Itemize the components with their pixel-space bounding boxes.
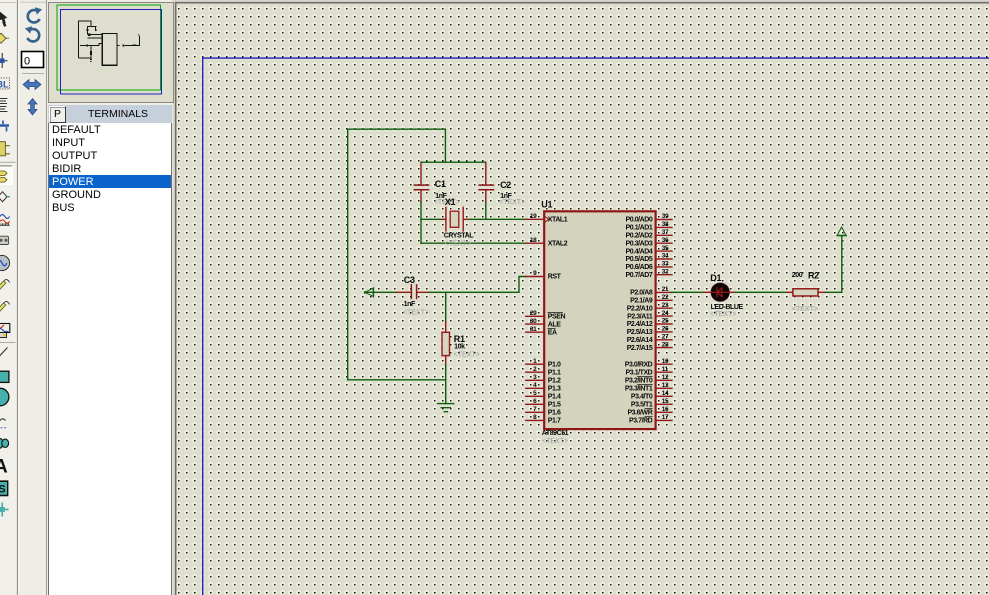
U1 pin 11 P3.1/TXD bbox=[656, 371, 672, 373]
icon: mirror horizontal bbox=[23, 80, 41, 90]
wire: pin21 to LED bbox=[671, 291, 704, 293]
icon: voltage probe bbox=[0, 281, 6, 291]
icon: bus bbox=[0, 121, 9, 132]
svg-text:A: A bbox=[0, 457, 8, 478]
svg-text:34: 34 bbox=[662, 253, 669, 260]
svg-text:15: 15 bbox=[662, 398, 669, 405]
wire: junction down to R1 bbox=[445, 292, 447, 322]
svg-text:P3.6/WR: P3.6/WR bbox=[627, 410, 652, 417]
wire: left ground loop (vertical + top run) bbox=[348, 129, 446, 380]
U1 pin 23 P2.2/A10 bbox=[656, 307, 672, 309]
U1 pin 4 P1.3 bbox=[526, 387, 544, 389]
svg-text:R2: R2 bbox=[808, 270, 819, 280]
svg-text:12: 12 bbox=[662, 374, 669, 381]
wire: C1-C2 top rail bbox=[421, 161, 486, 163]
svg-text:P2.5/A13: P2.5/A13 bbox=[627, 329, 653, 336]
icon: graph bbox=[0, 215, 10, 226]
svg-text:37: 37 bbox=[662, 229, 669, 236]
svg-text:RST: RST bbox=[548, 274, 562, 281]
svg-text:32: 32 bbox=[662, 268, 669, 275]
svg-text:39: 39 bbox=[662, 213, 669, 220]
icon: 2d circle bbox=[0, 388, 9, 405]
svg-text:10k: 10k bbox=[454, 343, 465, 350]
U1 pin 5 P1.4 bbox=[526, 395, 544, 397]
mini left loop bbox=[79, 21, 91, 58]
icon: rotate clockwise bbox=[28, 10, 40, 22]
svg-text:P3.4/T0: P3.4/T0 bbox=[631, 394, 653, 401]
svg-text:18: 18 bbox=[530, 237, 537, 244]
divider bbox=[0, 161, 16, 163]
icon: current probe bbox=[0, 303, 6, 313]
svg-text:35: 35 bbox=[662, 245, 669, 252]
svg-text:PSEN: PSEN bbox=[548, 314, 566, 321]
wire: XTAL2 rail to pin18 bbox=[421, 242, 526, 244]
svg-text:P0.1/AD1: P0.1/AD1 bbox=[626, 225, 653, 232]
wire: R1 to ground bbox=[445, 365, 447, 404]
icon: text script bbox=[0, 99, 8, 112]
svg-text:<TEXT>: <TEXT> bbox=[403, 310, 429, 317]
wire: LED to R2 bbox=[736, 291, 787, 293]
svg-text:36: 36 bbox=[662, 237, 669, 244]
AT89C51 U1 bbox=[526, 200, 672, 445]
U1 pin 34 P0.5/AD5 bbox=[656, 258, 672, 260]
U1 pin 30 ALE bbox=[526, 323, 544, 325]
U1 pin 21 P2.0/A8 bbox=[656, 291, 672, 293]
svg-text:P1.4: P1.4 bbox=[548, 394, 561, 401]
U1 pin 13 P3.3/INT1 bbox=[656, 387, 672, 389]
icon: 2d arc bbox=[0, 419, 6, 428]
U1 pin 31 EA bbox=[526, 331, 544, 333]
svg-text:P1.7: P1.7 bbox=[548, 418, 561, 425]
svg-text:D1: D1 bbox=[710, 273, 721, 283]
svg-text:10: 10 bbox=[662, 358, 669, 365]
wire: crystal left bbox=[421, 218, 442, 220]
U1 pin 29 PSEN bbox=[526, 315, 544, 317]
U1 pin 7 P1.6 bbox=[526, 411, 544, 413]
icon: 2d line bbox=[0, 348, 8, 358]
U1 pin 26 P2.5/A13 bbox=[656, 331, 672, 333]
svg-text:1nF: 1nF bbox=[404, 301, 416, 308]
svg-text:P2.2/A10: P2.2/A10 bbox=[627, 305, 653, 312]
svg-text:25: 25 bbox=[662, 318, 669, 325]
U1 pin 3 P1.2 bbox=[526, 379, 544, 381]
svg-text:P3.3/INT1: P3.3/INT1 bbox=[625, 386, 653, 393]
svg-text:P1.0: P1.0 bbox=[548, 361, 561, 368]
svg-text:11: 11 bbox=[662, 366, 669, 373]
mini top rail bbox=[87, 25, 97, 27]
U1 XTAL1 clock marker bbox=[545, 217, 549, 222]
resistor R2 bbox=[787, 270, 826, 313]
svg-text:P0.6/AD6: P0.6/AD6 bbox=[626, 264, 653, 271]
U1 pin 27 P2.6/A14 bbox=[656, 339, 672, 341]
svg-text:BL: BL bbox=[0, 79, 9, 89]
svg-text:P2.7/A15: P2.7/A15 bbox=[627, 345, 653, 352]
terminal: power (up arrow) bbox=[837, 227, 846, 236]
icon: component bbox=[0, 33, 6, 43]
mini xtal wires bbox=[87, 35, 102, 38]
svg-text:P1.5: P1.5 bbox=[548, 402, 561, 409]
svg-text:U1: U1 bbox=[541, 200, 552, 210]
mini RST wire bbox=[81, 44, 102, 46]
svg-text:P3.5/T1: P3.5/T1 bbox=[631, 402, 653, 409]
svg-text:AT89C51: AT89C51 bbox=[542, 430, 569, 437]
IC U1 body bbox=[544, 211, 655, 429]
icon: generator bbox=[0, 255, 10, 270]
LED D1 bbox=[704, 273, 744, 318]
wire: C3 to RST pin jog bbox=[429, 277, 526, 293]
svg-text:P0.2/AD2: P0.2/AD2 bbox=[626, 233, 653, 240]
icon: junction dot bbox=[0, 53, 8, 68]
svg-text:30: 30 bbox=[530, 318, 537, 325]
icon: 2d box bbox=[0, 371, 9, 382]
svg-text:<TEXT>: <TEXT> bbox=[792, 306, 818, 313]
capacitor C2 bbox=[479, 163, 525, 206]
mini junction dots bbox=[80, 29, 96, 62]
U1 pin 19 XTAL1 bbox=[526, 218, 544, 220]
U1 pin 35 P0.4/AD4 bbox=[656, 250, 672, 252]
icon: selection arrow bbox=[0, 11, 7, 23]
svg-text:26: 26 bbox=[662, 326, 669, 333]
U1 pin 10 P3.0/RXD bbox=[656, 363, 672, 365]
icon: rotate anticlockwise bbox=[27, 29, 39, 41]
icon: virtual instruments bbox=[0, 324, 10, 333]
icon: device pin bbox=[0, 192, 7, 202]
svg-text:21: 21 bbox=[662, 286, 669, 293]
svg-text:31: 31 bbox=[530, 326, 537, 333]
angle edit box bbox=[22, 52, 44, 68]
svg-text:<TEXT>: <TEXT> bbox=[542, 438, 568, 445]
U1 pin 14 P3.4/T0 bbox=[656, 395, 672, 397]
svg-text:P2.4/A12: P2.4/A12 bbox=[627, 321, 653, 328]
svg-text:28: 28 bbox=[662, 341, 669, 348]
wire: crystal right to pin19 bbox=[467, 218, 526, 220]
icon: subcircuit bbox=[0, 142, 5, 156]
U1 pin 9 RST bbox=[526, 276, 544, 278]
wire: RST horizontal to C3 bbox=[366, 291, 397, 293]
svg-text:<TEXT>: <TEXT> bbox=[454, 351, 480, 358]
U1 pin 18 XTAL2 bbox=[526, 242, 544, 244]
terminals list bbox=[48, 123, 172, 595]
wire: bottom run to R1 net bbox=[348, 379, 446, 381]
U1 pin 39 P0.0/AD0 bbox=[656, 219, 672, 221]
divider bbox=[0, 342, 16, 344]
mini C1 C2 bbox=[87, 26, 95, 34]
U1 pin 37 P0.2/AD2 bbox=[656, 234, 672, 236]
svg-text:XTAL2: XTAL2 bbox=[548, 240, 568, 247]
U1 pin 36 P0.3/AD3 bbox=[656, 242, 672, 244]
overview blue view rect bbox=[60, 10, 161, 94]
svg-text:P0.4/AD4: P0.4/AD4 bbox=[626, 248, 653, 255]
svg-text:P2.0/A8: P2.0/A8 bbox=[630, 290, 653, 297]
icon: 2d symbol bbox=[0, 480, 8, 496]
svg-text:P2.3/A11: P2.3/A11 bbox=[627, 313, 653, 320]
svg-text:38: 38 bbox=[662, 221, 669, 228]
icon: mirror vertical bbox=[28, 99, 37, 116]
svg-text:C3: C3 bbox=[404, 275, 415, 285]
capacitor C1 bbox=[414, 163, 460, 206]
svg-text:13: 13 bbox=[662, 382, 669, 389]
mini R1 branch bbox=[90, 45, 92, 59]
svg-text:P1.3: P1.3 bbox=[548, 386, 561, 393]
U1 pin 38 P0.1/AD1 bbox=[656, 226, 672, 228]
svg-text:P0.7/AD7: P0.7/AD7 bbox=[626, 272, 653, 279]
wire: C2 bottom to XTAL1 rail bbox=[485, 202, 487, 219]
svg-text:P1.2: P1.2 bbox=[548, 378, 561, 385]
svg-text:22: 22 bbox=[662, 294, 669, 301]
svg-text:33: 33 bbox=[662, 261, 669, 268]
icon: tape recorder bbox=[0, 236, 9, 244]
U1 pin 33 P0.6/AD6 bbox=[656, 266, 672, 268]
crystal X1 bbox=[442, 197, 475, 247]
icon: 2d closed path bbox=[0, 438, 3, 448]
U1 pin 17 P3.7/RD bbox=[656, 419, 672, 421]
svg-text:P3.0/RXD: P3.0/RXD bbox=[625, 361, 653, 368]
U1 pin 28 P2.7/A15 bbox=[656, 347, 672, 349]
U1 pin 22 P2.1/A9 bbox=[656, 299, 672, 301]
svg-text:S: S bbox=[0, 484, 6, 496]
icon: terminal (pressed) bbox=[0, 166, 12, 185]
svg-text:P0.5/AD5: P0.5/AD5 bbox=[626, 256, 653, 263]
svg-text:LED-BLUE: LED-BLUE bbox=[711, 304, 744, 311]
svg-text:R1: R1 bbox=[454, 334, 465, 344]
mini right net bbox=[117, 35, 139, 45]
svg-text:CRYSTAL: CRYSTAL bbox=[444, 233, 475, 240]
svg-text:19: 19 bbox=[530, 213, 537, 220]
terminal: default (RST net, left arrow) bbox=[364, 288, 373, 297]
U1 pin 25 P2.4/A12 bbox=[656, 323, 672, 325]
svg-text:EA: EA bbox=[548, 329, 557, 336]
icon: 2d marker bbox=[0, 503, 9, 517]
svg-text:XTAL1: XTAL1 bbox=[548, 217, 568, 224]
svg-text:P3.2/INT0: P3.2/INT0 bbox=[625, 378, 653, 385]
overview green work area rect bbox=[57, 5, 161, 90]
U1 pin 1 P1.0 bbox=[526, 363, 544, 365]
U1 pin 32 P0.7/AD7 bbox=[656, 274, 672, 276]
svg-text:C1: C1 bbox=[435, 179, 446, 189]
svg-text:<TEXT>: <TEXT> bbox=[710, 311, 736, 318]
svg-text:P3.7/RD: P3.7/RD bbox=[629, 418, 653, 425]
U1 pin 16 P3.6/WR bbox=[656, 411, 672, 413]
svg-text:<TEXT>: <TEXT> bbox=[445, 240, 471, 247]
svg-text:P0.3/AD3: P0.3/AD3 bbox=[626, 240, 653, 247]
svg-text:200: 200 bbox=[792, 272, 803, 279]
svg-text:<TEXT>: <TEXT> bbox=[499, 199, 525, 206]
svg-text:P1.1: P1.1 bbox=[548, 369, 561, 376]
overview panel bbox=[48, 2, 174, 103]
wire: C1 bottom to crystal-left / XTAL2 rail bbox=[420, 202, 422, 243]
icon: wire label bbox=[0, 78, 10, 89]
svg-text:27: 27 bbox=[662, 334, 669, 341]
U1 pin 8 P1.7 bbox=[526, 419, 544, 421]
mini MCU bbox=[102, 33, 117, 65]
svg-text:P0.0/AD0: P0.0/AD0 bbox=[626, 217, 653, 224]
svg-text:ALE: ALE bbox=[548, 321, 561, 328]
left toolbar strip bbox=[0, 0, 20, 595]
second toolbar column bbox=[20, 0, 48, 595]
U1 pin 12 P3.2/INT0 bbox=[656, 379, 672, 381]
U1 pin 6 P1.5 bbox=[526, 403, 544, 405]
sheet border blue bbox=[203, 58, 989, 595]
svg-text:C2: C2 bbox=[500, 180, 511, 190]
svg-text:P2.6/A14: P2.6/A14 bbox=[627, 337, 653, 344]
U1 pin 24 P2.3/A11 bbox=[656, 315, 672, 317]
svg-text:24: 24 bbox=[662, 310, 669, 317]
svg-text:23: 23 bbox=[662, 302, 669, 309]
U1 pin 2 P1.1 bbox=[526, 371, 544, 373]
U1 pin 15 P3.5/T1 bbox=[656, 403, 672, 405]
svg-text:14: 14 bbox=[662, 390, 669, 397]
svg-text:P1.6: P1.6 bbox=[548, 410, 561, 417]
svg-text:16: 16 bbox=[662, 406, 669, 413]
svg-text:X1: X1 bbox=[445, 197, 456, 207]
svg-text:17: 17 bbox=[662, 414, 669, 421]
svg-text:P3.1/TXD: P3.1/TXD bbox=[626, 369, 653, 376]
wire: R2 to power corner bbox=[826, 236, 842, 292]
ground bbox=[438, 404, 454, 412]
svg-text:0: 0 bbox=[24, 56, 30, 68]
capacitor C3 bbox=[397, 275, 429, 317]
svg-text:29: 29 bbox=[530, 310, 537, 317]
svg-text:P2.1/A9: P2.1/A9 bbox=[630, 298, 653, 305]
terminals header bbox=[48, 105, 172, 123]
resistor R1 bbox=[442, 322, 480, 365]
